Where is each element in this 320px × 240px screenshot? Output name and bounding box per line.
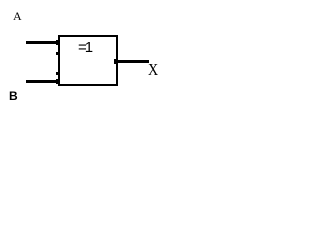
wire X output [116,60,149,63]
pin tick A [56,40,58,45]
pin stub upper [56,52,58,55]
pin tick X [114,59,116,64]
gate label =1 [78,40,91,55]
wire B input [26,80,59,83]
wire A input [26,41,59,44]
node A [13,10,22,22]
pin stub lower [56,72,58,75]
node B [9,90,18,102]
xor gate U1 body [58,35,118,86]
pin tick B [56,79,58,84]
node X [148,62,158,79]
